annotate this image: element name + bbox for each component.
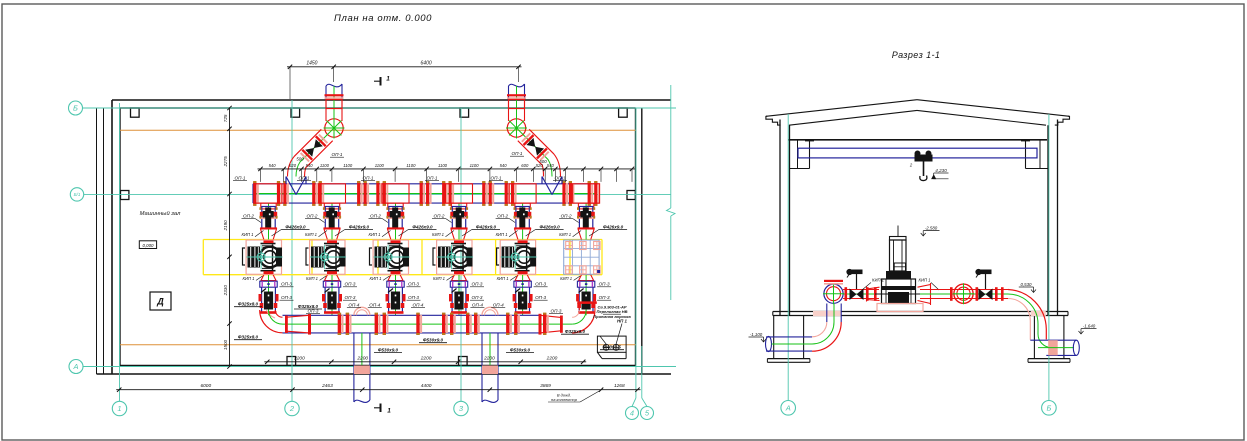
svg-text:2463: 2463 [321,383,333,389]
pump unit 5 vertical piping with valves [513,203,533,315]
pump unit 4 vertical piping with valves [449,203,469,315]
crane beam bracket right [1021,140,1048,169]
pump 4 body on foundation [433,240,473,274]
reserve pump foundation (bolt grid, no pump) [564,240,600,274]
grid axis B/1 circle [70,188,83,201]
drawing break line (teal) [667,85,676,300]
section left pipe train [843,287,879,301]
suction funnel 2 on upper manifold [542,177,562,195]
svg-text:А: А [785,404,791,413]
svg-text:2330: 2330 [223,285,228,297]
grid axis B/1 horizontal line [84,193,671,195]
svg-text:Ф530х9.0: Ф530х9.0 [510,347,531,352]
svg-text:ОП-4: ОП-4 [348,302,359,307]
grid axis B horizontal line [83,107,677,109]
svg-text:1100: 1100 [406,163,416,168]
svg-text:Ф530х9.0: Ф530х9.0 [378,347,399,352]
svg-text:ОП-1: ОП-1 [512,151,523,156]
labels OP-4 on drain lines [347,302,505,307]
grid axis B circle [69,101,83,115]
svg-text:ОП-3: ОП-3 [408,282,419,287]
left vertical dimension line 725/2275/2190/2330/1500 [223,106,232,369]
svg-text:1100: 1100 [375,163,385,168]
svg-text:Ф325х8.0: Ф325х8.0 [238,335,259,340]
svg-text:ОП-1: ОП-1 [299,176,310,181]
svg-text:-1,640: -1,640 [1083,324,1096,329]
svg-text:ОП-2: ОП-2 [243,214,254,219]
section roof top chord [766,100,1070,117]
plan top wall column 1 [131,108,140,117]
svg-text:ОП-3: ОП-3 [599,282,610,287]
pump 5 body on foundation [497,240,537,274]
svg-text:ОП-1: ОП-1 [555,176,566,181]
svg-text:2190: 2190 [223,220,228,232]
pump unit 3 vertical piping with valves [386,203,406,315]
svg-text:Б: Б [73,104,78,113]
svg-text:КИП 1: КИП 1 [919,278,931,283]
section floor slab [773,312,1068,316]
crane beam bracket left [790,140,815,169]
plan building inner top wall [120,107,636,109]
svg-text:3869: 3869 [540,383,551,389]
svg-text:ОП-1: ОП-1 [427,176,438,181]
label OP-3 left of header [306,309,320,314]
svg-text:4,230: 4,230 [935,168,947,173]
grid axis 4 vertical line [632,108,636,407]
section right elbow down through floor [1008,290,1052,348]
grid axis 3 circle [454,401,468,415]
section left inlet pipe (below floor) [766,336,813,351]
svg-text:ОП-3: ОП-3 [551,309,562,314]
label OP-3 right of header [549,309,563,314]
plan crane rail line bottom (orange) [120,344,636,346]
section left foundation pedestal [767,316,810,363]
svg-text:2: 2 [909,163,913,168]
svg-text:ОП-2: ОП-2 [497,214,508,219]
section ceiling / truss bottom line [788,139,1047,141]
lower manifold right elbow up to reserve riser [572,301,597,333]
svg-text:ОП-3: ОП-3 [345,282,356,287]
plan bottom wall column 2 [459,357,468,366]
suction funnel 1 on upper manifold [286,177,306,195]
drain pipe 2 through bottom wall [482,307,498,402]
svg-text:-2,580: -2,580 [925,226,938,231]
label Машинный зал [140,210,181,217]
svg-text:540: 540 [500,163,508,168]
grid axis 2 vertical line [291,100,293,401]
elevation box 0,000 [139,241,156,249]
svg-text:-1,100: -1,100 [750,332,763,337]
lower manifold pipe body [283,315,573,333]
label OP-1 at riser 1 [330,152,344,157]
plan building left gallery line 1 [96,108,98,374]
pipe diameter labels [234,302,624,353]
grid axis 1 vertical line [119,103,121,401]
section elevation label -1,640 [1079,324,1097,335]
upper manifold pipe body [253,184,599,203]
svg-text:Ф426х9.0: Ф426х9.0 [603,224,624,229]
svg-text:Разрез 1-1: Разрез 1-1 [892,50,941,60]
svg-text:1100: 1100 [320,163,330,168]
svg-text:КИП 1: КИП 1 [432,232,444,237]
svg-text:Ф426х9.0: Ф426х9.0 [285,224,306,229]
section grid axis B circle [1042,401,1057,416]
svg-text:КИП 1: КИП 1 [243,276,255,281]
plan top wall column 3 [460,108,469,117]
svg-text:ОП-1: ОП-1 [235,176,246,181]
plan top wall column 2 [291,108,300,117]
plan building outer bottom wall [97,373,672,375]
section pump foundation [877,304,923,312]
svg-text:ОП-2: ОП-2 [370,214,381,219]
svg-text:Ф426х9.0: Ф426х9.0 [349,224,370,229]
section label KIP1 left [862,278,884,291]
svg-text:1100: 1100 [343,163,353,168]
grid axis A circle [69,360,83,374]
section right outlet pipe through wall [1030,340,1079,355]
svg-text:ОП-3: ОП-3 [308,309,319,314]
lower manifold flanges [338,313,549,335]
svg-text:Ф325х8.0: Ф325х8.0 [565,329,586,334]
svg-text:КИП 1: КИП 1 [872,278,884,283]
svg-text:Б/1: Б/1 [74,192,81,197]
svg-text:КИП 1: КИП 1 [497,276,509,281]
svg-text:ОП-3: ОП-3 [535,282,546,287]
plan left wall column at axis B/1 [121,191,129,200]
plan bottom wall column 1 [287,357,296,366]
section right foundation pedestal [1028,316,1070,363]
section check valve circle right [953,283,974,304]
section elevation label 0,530 [1019,282,1036,293]
overflow pit NP1 [597,324,626,359]
plan building right wall line 1 [635,108,637,366]
upper manifold tee boxes (red) [255,184,600,203]
svg-text:ОП-4: ОП-4 [369,302,380,307]
svg-text:КИП 1: КИП 1 [369,232,381,237]
svg-text:ОП-2: ОП-2 [307,214,318,219]
plan building left gallery line 2 [103,108,105,374]
svg-text:Ф426х9.0: Ф426х9.0 [412,224,433,229]
svg-text:КИП 1: КИП 1 [242,232,254,237]
svg-text:2275: 2275 [223,156,228,168]
plan crane rail line top (orange) [120,129,636,131]
plan building left inner wall [119,108,121,366]
svg-text:540: 540 [547,163,555,168]
svg-text:2200: 2200 [356,355,368,361]
svg-text:2: 2 [289,404,295,413]
section right pipe train [920,287,1008,301]
label 500 at riser 2 [539,159,547,164]
section left elbow up through floor [812,304,842,352]
grid axis 5 vertical line [642,346,647,407]
grid axis 1 circle [112,401,126,415]
label OP-1 at riser 2 [510,151,524,156]
plan building right wall line 2 [641,108,643,374]
drain note bottom [548,390,601,402]
svg-text:600: 600 [521,163,529,168]
lower manifold left elbow (pump1 to header) [260,310,283,333]
svg-text:0,530: 0,530 [1021,282,1033,287]
svg-text:КИП 1: КИП 1 [433,276,445,281]
crane elevation label 4,230 [932,168,949,179]
svg-text:ОП-4: ОП-4 [413,302,424,307]
section cut mark top [374,76,390,86]
svg-text:2200: 2200 [420,355,432,361]
pump unit 6 vertical piping with valves [576,203,596,315]
svg-text:КИП 1: КИП 1 [306,276,318,281]
svg-text:Машинный зал: Машинный зал [140,210,181,217]
plan building outer top wall [112,99,671,101]
svg-text:ОП-4: ОП-4 [493,302,504,307]
svg-text:540: 540 [306,163,314,168]
crane trolley and hook [909,151,933,181]
section right eave cornice [1055,116,1070,125]
svg-text:КИП 1: КИП 1 [560,276,572,281]
plan building inner bottom wall [120,365,636,367]
svg-text:4400: 4400 [421,383,432,389]
label 500 at riser 1 [296,157,304,162]
middle dimension line 540/620/540/1100... [258,163,636,182]
svg-text:6400: 6400 [421,61,432,67]
pump unit labels [242,214,628,301]
svg-text:2200: 2200 [293,355,305,361]
svg-text:ОП-3: ОП-3 [281,295,292,300]
section pump elevation -2,580 [921,226,940,237]
svg-text:ОП-1: ОП-1 [363,176,374,181]
svg-text:2200: 2200 [483,355,495,361]
svg-text:КИП 1: КИП 1 [370,276,382,281]
svg-text:ОП-2: ОП-2 [434,214,445,219]
labels OP-1 along upper manifold [233,176,567,181]
section left wall columns [780,120,798,316]
svg-text:ОП-1: ОП-1 [332,152,343,157]
svg-text:1: 1 [117,404,121,413]
section grid axis A line [787,114,789,401]
yellow equipment zone band [203,240,602,275]
svg-text:Д: Д [156,297,164,307]
section right wall columns [1040,120,1058,316]
svg-text:520: 520 [536,163,544,168]
pump unit 1 vertical piping with valves [259,203,279,315]
svg-text:Б: Б [1046,404,1051,413]
svg-text:ОП-1: ОП-1 [491,176,502,181]
section cut mark bottom [374,404,391,415]
pump 2 body on foundation [306,240,346,274]
svg-text:5: 5 [645,409,650,418]
svg-text:Ф530х9.0: Ф530х9.0 [423,338,444,343]
zone box Д [150,292,171,310]
svg-text:4: 4 [630,409,634,418]
grid axis 5 circle [641,407,654,420]
section pump body [867,271,931,305]
svg-text:6000: 6000 [200,383,211,389]
grid axis A horizontal line [83,366,676,368]
svg-text:ОП-3: ОП-3 [281,282,292,287]
svg-text:1450: 1450 [306,61,317,67]
section pump motor [890,226,907,272]
section left eave cornice [766,116,781,125]
svg-text:1: 1 [387,408,391,415]
pump 3 body on foundation [370,240,410,274]
svg-text:ОП-3: ОП-3 [535,295,546,300]
svg-text:ОП-4: ОП-4 [472,302,483,307]
svg-text:2200: 2200 [546,355,558,361]
grid axis 4 circle [626,407,639,420]
svg-text:1: 1 [386,76,390,83]
section strainer circle left [823,280,844,304]
riser pipe 2 with 45deg diagonal and valve OP-1 [506,84,561,177]
svg-text:ОП-3: ОП-3 [599,295,610,300]
svg-text:КИП 1: КИП 1 [496,232,508,237]
svg-text:620: 620 [289,163,297,168]
svg-text:Ф426х9.0: Ф426х9.0 [476,224,497,229]
svg-text:1100: 1100 [470,163,480,168]
svg-text:540: 540 [269,163,277,168]
crane runway beam [798,148,1037,158]
plan building left outer wall [111,100,113,374]
svg-text:500: 500 [296,157,304,162]
section title [892,50,941,60]
lower manifold right reducer [539,314,563,335]
section left gate valve with actuator [847,269,864,300]
svg-text:ОП-3: ОП-3 [472,295,483,300]
pump unit 2 vertical piping with valves [322,203,342,315]
section label KIP1 right [919,278,940,291]
plan right wall column at axis B/1 [627,191,635,200]
svg-text:НП 1: НП 1 [617,319,628,324]
upper manifold flanges [253,181,600,206]
svg-text:725: 725 [223,114,228,122]
svg-text:0,000: 0,000 [143,243,155,248]
svg-text:ОП-3: ОП-3 [408,295,419,300]
svg-text:3: 3 [459,404,464,413]
section elevation label -1,100 [749,332,767,342]
drain pipe 1 through bottom wall [354,307,370,402]
section grid axis A circle [781,401,796,416]
svg-text:ОП-3: ОП-3 [345,295,356,300]
svg-text:А: А [72,362,78,371]
svg-text:ОП-3: ОП-3 [472,282,483,287]
svg-text:1100: 1100 [438,163,448,168]
riser pipe 1 with 45deg diagonal and valve OP-1 [288,84,345,177]
section roof lower chord [789,110,1046,125]
lower manifold left reducer [285,314,311,335]
svg-text:1268: 1268 [614,383,625,389]
svg-text:КИП 1: КИП 1 [305,232,317,237]
plan title [334,13,432,24]
section right gate valve with actuator [976,269,993,300]
section grid axis B line [1048,114,1050,401]
plan top wall column 4 [619,108,628,117]
svg-text:План на отм. 0.000: План на отм. 0.000 [334,13,432,24]
top dimension line 1450/6400 [287,61,522,99]
svg-text:Ф325х8.0: Ф325х8.0 [238,302,259,307]
bottom dimension line 6000/2463/4400/3869/1268 [116,383,640,392]
svg-text:1500: 1500 [223,339,228,350]
grid axis 3 vertical line [460,108,462,401]
svg-text:КИП 1: КИП 1 [559,232,571,237]
pump 1 body on foundation [243,240,283,274]
pump spacing dimension 2200 x5 [264,355,586,364]
pit note text [593,305,631,324]
svg-text:Ф426х9.0: Ф426х9.0 [539,224,560,229]
grid axis 2 circle [285,401,299,415]
svg-text:на коллектор: на коллектор [551,397,578,402]
svg-text:ОП-2: ОП-2 [561,214,572,219]
